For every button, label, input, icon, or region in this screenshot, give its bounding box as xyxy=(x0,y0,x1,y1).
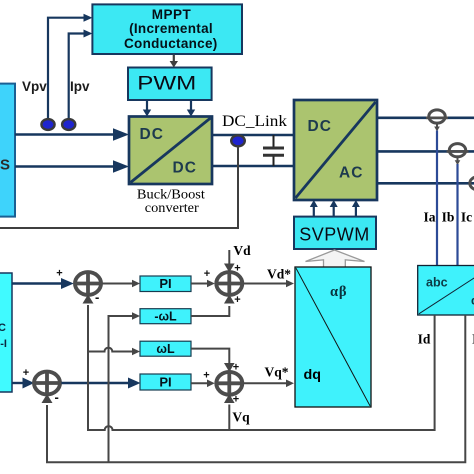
svg-text:+: + xyxy=(56,268,62,280)
svg-text:PI: PI xyxy=(159,375,171,390)
label Buck/Boost converter xyxy=(137,187,205,215)
wire Iq* reference to summer 2 xyxy=(12,367,34,389)
svg-text:+: + xyxy=(204,268,210,280)
converter DC/AC inverter xyxy=(294,100,377,200)
block alpha-beta / dq transform xyxy=(295,267,371,407)
wire wL to J4 xyxy=(191,349,235,372)
svg-text:-: - xyxy=(95,290,99,305)
node Ipv xyxy=(62,119,75,130)
wire Ib sense xyxy=(456,164,458,266)
wire Ia sense xyxy=(436,131,438,266)
wire PI1 to J3 xyxy=(191,268,215,287)
svg-text:DC: DC xyxy=(308,118,332,135)
block MPPT (Incremental Conductance) xyxy=(92,4,242,54)
wire J3 to dq block (Vd*) xyxy=(244,280,294,288)
summer J1 (d-axis error) xyxy=(74,271,103,305)
wire PI2 to J4 xyxy=(191,370,215,388)
wire SVPWM gate 3 xyxy=(352,200,360,217)
svg-text:+: + xyxy=(234,263,240,275)
svg-text:converter: converter xyxy=(145,200,199,215)
wire Id* reference to summer 1 xyxy=(12,268,74,290)
svg-text:ωL: ωL xyxy=(156,342,175,356)
wire J4 to dq block (Vq*) xyxy=(244,380,294,388)
svg-text:PWM: PWM xyxy=(137,74,196,95)
block abc/dq transform xyxy=(418,266,474,316)
wire DC link voltage sense xyxy=(0,146,238,228)
svg-text:αβ: αβ xyxy=(330,284,347,300)
svg-text:Vd: Vd xyxy=(233,243,251,258)
summer J3 (Vd* compose) xyxy=(215,263,244,307)
wire SVPWM gate 2 xyxy=(330,200,338,217)
svg-text:-: - xyxy=(55,390,59,405)
wire Iq feedback from abc block xyxy=(42,315,466,462)
svg-text:+: + xyxy=(233,362,239,374)
svg-text:-ωL: -ωL xyxy=(154,310,177,324)
capacitor DC link xyxy=(263,135,284,166)
wire Vq feedforward xyxy=(224,394,235,430)
svg-text:+: + xyxy=(234,294,240,306)
svg-text:+: + xyxy=(233,394,239,406)
svg-text:(Incremental: (Incremental xyxy=(129,21,213,36)
block PV source S (left edge, clipped) xyxy=(0,84,15,217)
wire MPPT to PWM xyxy=(170,55,178,68)
wire SVPWM gate 1 xyxy=(310,200,318,217)
block PI d-axis xyxy=(140,276,191,292)
wire Id feedback from abc block xyxy=(83,295,435,431)
svg-text:abc: abc xyxy=(426,276,448,290)
svg-text:+: + xyxy=(23,367,29,379)
svg-text:Vpv: Vpv xyxy=(22,79,47,94)
block arrow to SVPWM xyxy=(306,250,365,268)
node Vpv xyxy=(41,119,54,130)
block current controller (left edge, clipped) xyxy=(0,273,12,392)
svg-text:C: C xyxy=(0,322,6,334)
svg-text:Vq*: Vq* xyxy=(264,365,288,380)
svg-text:Ib: Ib xyxy=(442,210,455,225)
wire DC link top xyxy=(212,134,294,137)
wire Iq branch to -wL xyxy=(109,312,141,462)
block SVPWM xyxy=(294,217,376,249)
block -wL xyxy=(140,309,191,324)
block PI q-axis xyxy=(140,374,191,390)
wire phase B xyxy=(377,150,474,153)
svg-text:dq: dq xyxy=(304,366,322,382)
svg-text:DC: DC xyxy=(173,160,197,177)
wire phase C xyxy=(377,182,474,185)
wire DC link bottom xyxy=(212,165,294,168)
svg-text:Ipv: Ipv xyxy=(70,79,90,94)
svg-text:DC_Link: DC_Link xyxy=(222,113,287,130)
svg-text:DC: DC xyxy=(140,126,164,143)
wire PV to converter input 2 xyxy=(15,160,129,172)
svg-text:S: S xyxy=(0,157,10,174)
svg-text:Vq: Vq xyxy=(232,410,250,425)
svg-text:Id: Id xyxy=(418,332,431,347)
wire phase A xyxy=(377,117,474,120)
wire Id branch to wL xyxy=(88,348,140,356)
summer J4 (Vq* compose) xyxy=(215,362,244,406)
block wL xyxy=(140,341,191,356)
summer J2 (q-axis error) xyxy=(33,370,62,405)
node DC link xyxy=(231,135,245,146)
svg-text:Ic: Ic xyxy=(461,210,472,225)
converter DC/DC Buck-Boost xyxy=(129,117,212,185)
sensor CT phase C (clipped) xyxy=(470,177,474,190)
wire Ipv sense riser xyxy=(69,30,93,119)
wire PV to converter input 1 xyxy=(15,128,129,140)
svg-text:Conductance): Conductance) xyxy=(124,36,218,51)
wire Vpv sense riser xyxy=(48,14,92,118)
wire J1 to PI1 xyxy=(102,280,140,288)
svg-text:Ia: Ia xyxy=(423,210,435,225)
wire J2 to PI2 xyxy=(61,378,140,389)
svg-text:MPPT: MPPT xyxy=(152,7,192,22)
svg-text:AC: AC xyxy=(339,165,363,182)
wire -wL to J3 xyxy=(191,295,235,317)
block PWM xyxy=(128,68,212,101)
sensor CT phase B xyxy=(447,144,469,166)
wire Vd feedforward xyxy=(224,250,235,273)
svg-text:SVPWM: SVPWM xyxy=(299,224,370,244)
wire PWM to converter gate 2 xyxy=(187,100,195,117)
wire PWM to converter gate 1 xyxy=(143,100,151,117)
svg-text:Vd*: Vd* xyxy=(267,267,291,282)
svg-text:PI: PI xyxy=(159,276,171,291)
svg-text:+: + xyxy=(203,370,209,382)
svg-text:-I: -I xyxy=(0,338,7,350)
sensor CT phase A xyxy=(426,110,448,132)
